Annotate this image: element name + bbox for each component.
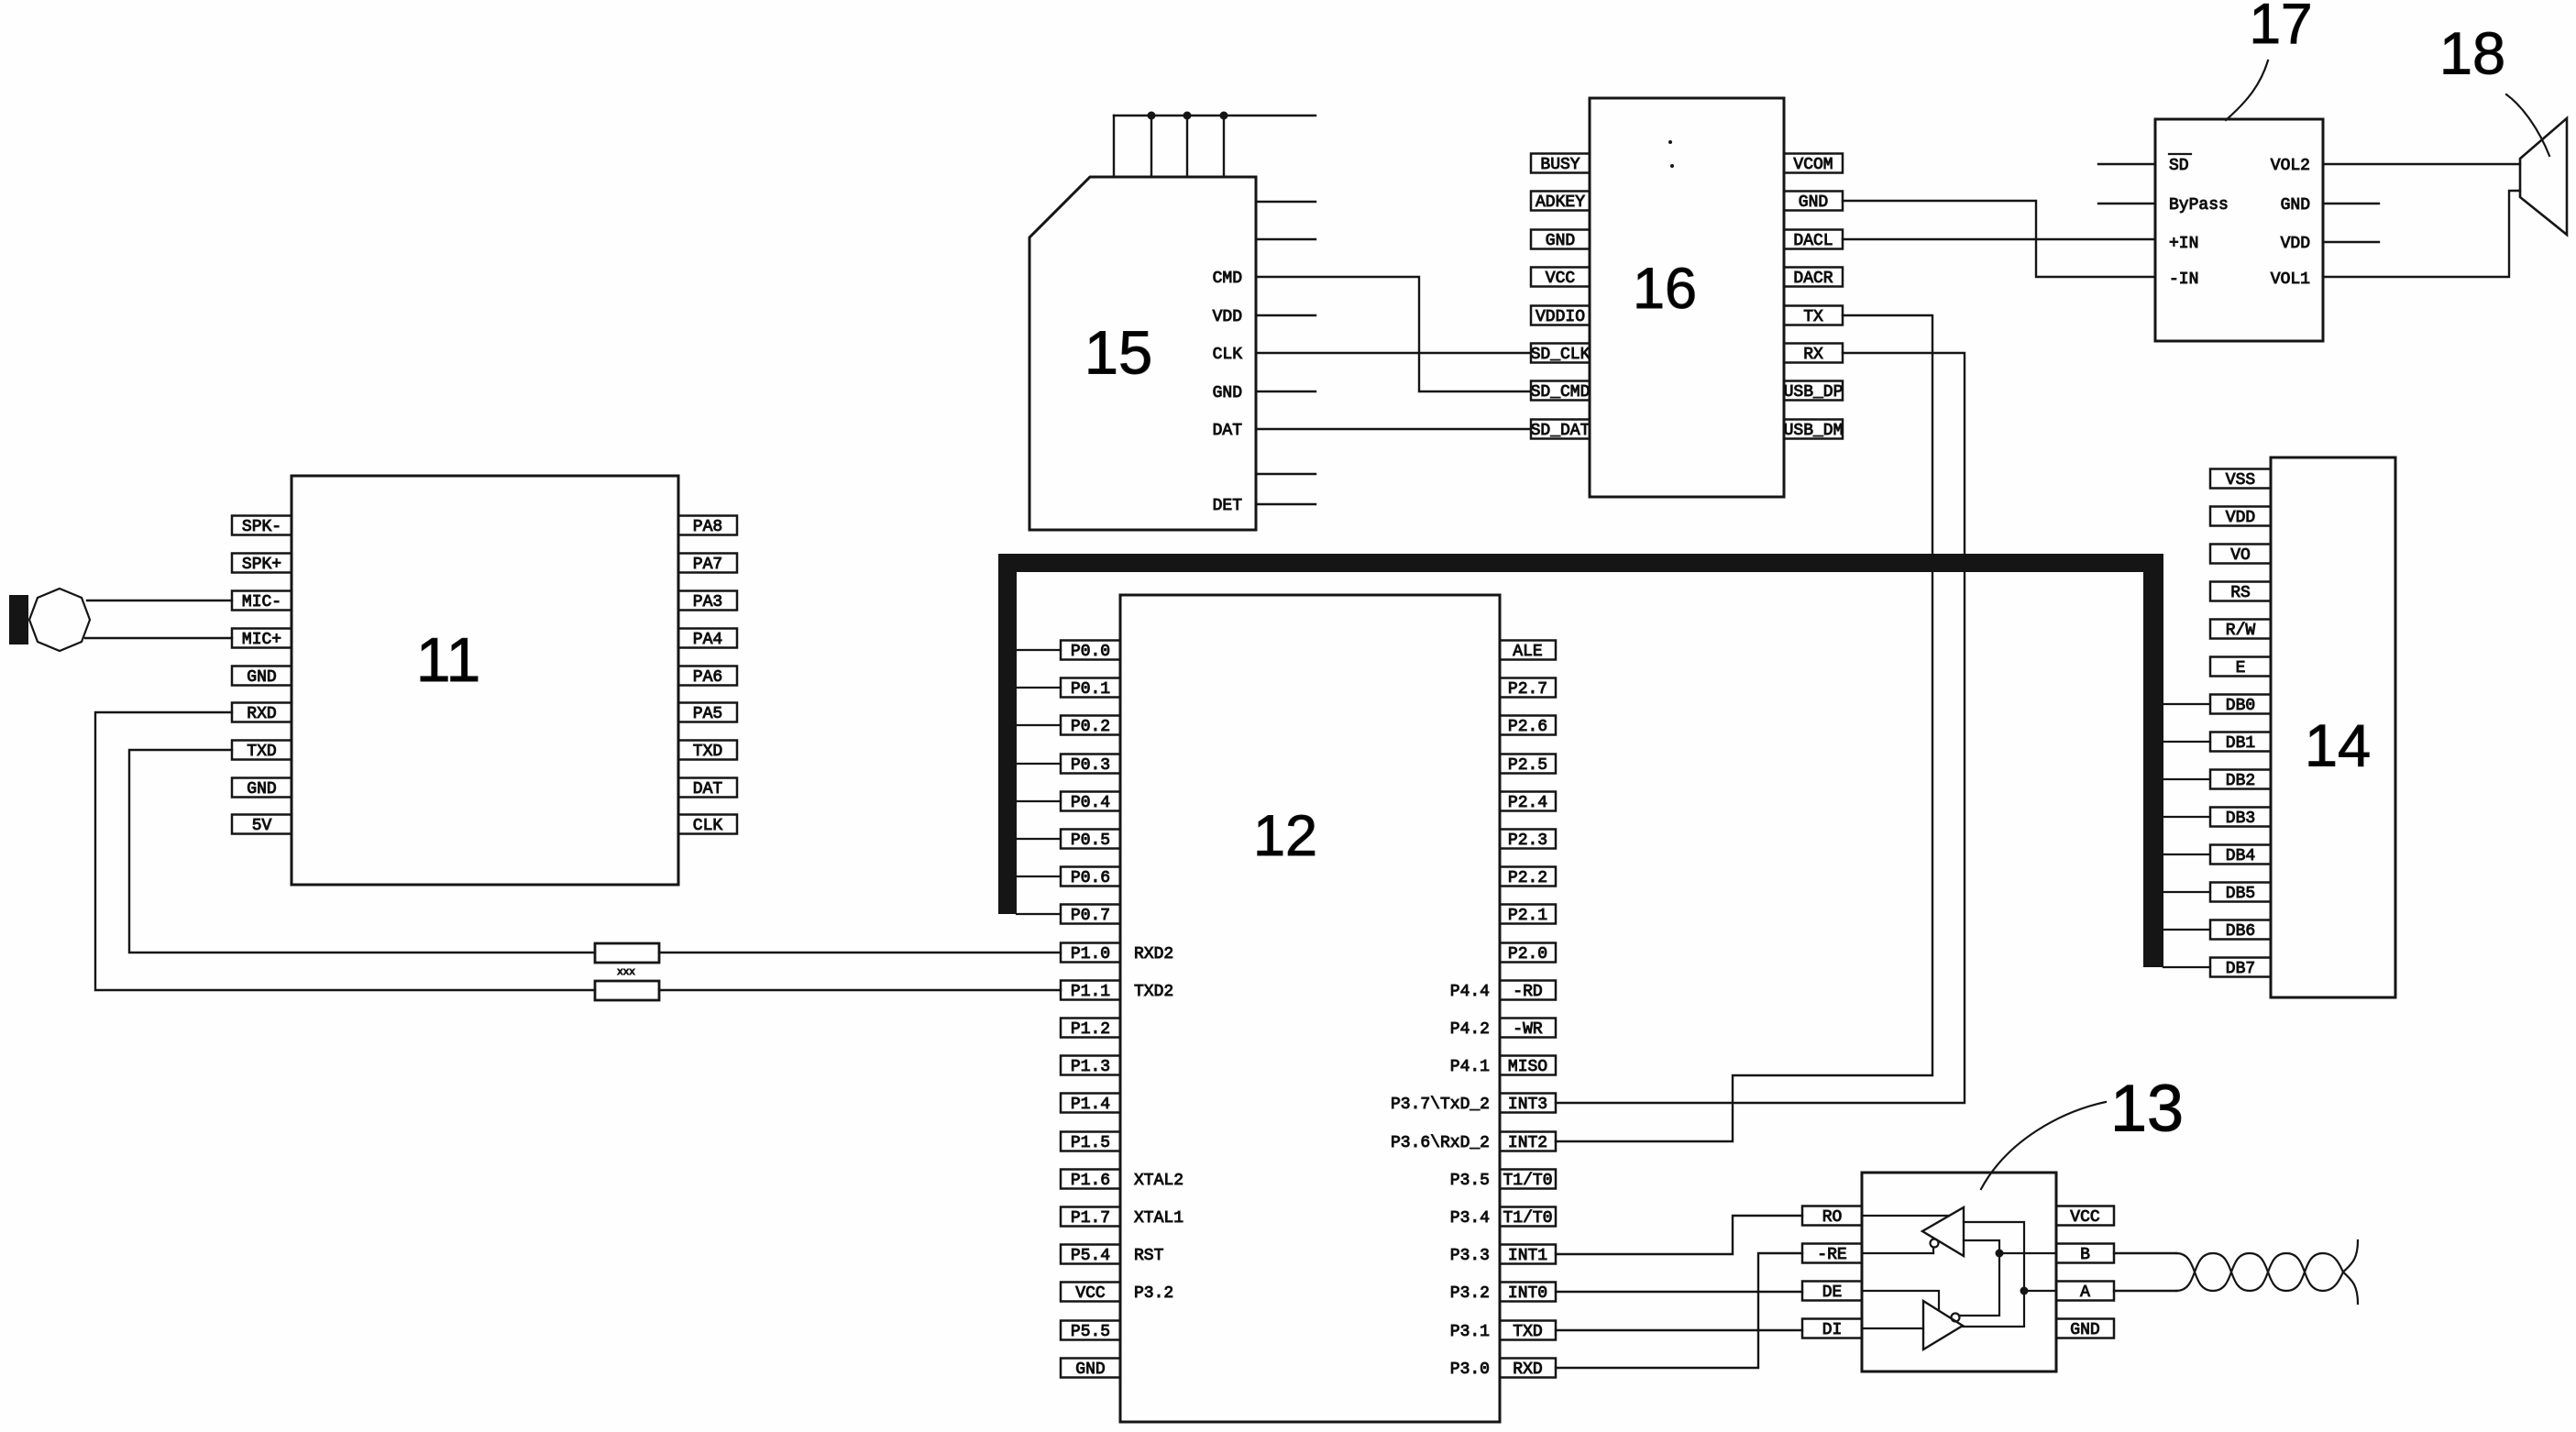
svg-text:VCOM: VCOM [1793,156,1833,174]
svg-text:DAT: DAT [1213,422,1243,440]
svg-text:DE: DE [1822,1283,1843,1302]
svg-text:P3.3: P3.3 [1450,1247,1490,1265]
svg-text:DB4: DB4 [2226,847,2255,865]
svg-text:16: 16 [1633,257,1697,321]
svg-text:P1.6: P1.6 [1071,1172,1110,1190]
svg-text:PA4: PA4 [693,631,722,649]
svg-text:-RE: -RE [1817,1246,1846,1264]
svg-text:P0.1: P0.1 [1071,680,1110,699]
svg-text:P0.0: P0.0 [1071,643,1110,661]
svg-text:SD_CMD: SD_CMD [1531,383,1591,402]
svg-text:GND: GND [247,780,276,799]
svg-text:P0.7: P0.7 [1071,907,1110,925]
svg-text:RXD2: RXD2 [1134,945,1173,964]
svg-text:DET: DET [1213,497,1243,515]
svg-text:P3.0: P3.0 [1450,1360,1490,1379]
svg-text:INT3: INT3 [1508,1096,1547,1114]
svg-text:DB0: DB0 [2226,697,2255,715]
svg-text:P0.4: P0.4 [1071,794,1110,812]
svg-text:P2.2: P2.2 [1508,869,1547,887]
svg-text:TX: TX [1803,308,1823,326]
svg-text:PA5: PA5 [693,705,722,723]
svg-text:TXD: TXD [247,743,276,761]
svg-text:TXD: TXD [1513,1323,1542,1341]
svg-text:17: 17 [2250,0,2313,56]
svg-text:PA6: PA6 [693,668,722,687]
svg-text:INT1: INT1 [1508,1247,1547,1265]
svg-text:P3.4: P3.4 [1450,1209,1490,1228]
svg-text:VO: VO [2230,546,2251,565]
svg-text:P3.2: P3.2 [1134,1284,1173,1303]
svg-text:A: A [2080,1283,2090,1302]
svg-text:P4.4: P4.4 [1450,983,1490,1001]
svg-text:DB1: DB1 [2226,734,2255,753]
svg-text:P1.4: P1.4 [1071,1096,1110,1114]
svg-text:PA3: PA3 [693,593,722,611]
svg-text:GND: GND [1799,193,1828,212]
svg-text:DI: DI [1822,1321,1843,1339]
svg-text:CLK: CLK [693,817,723,835]
svg-text:VDD: VDD [1213,308,1242,326]
svg-text:P1.2: P1.2 [1071,1020,1110,1039]
svg-text:DB6: DB6 [2226,922,2255,941]
svg-text:VCC: VCC [1546,270,1576,288]
svg-text:DACL: DACL [1793,232,1833,250]
svg-text:P1.5: P1.5 [1071,1134,1110,1152]
svg-text:5V: 5V [252,817,272,835]
svg-text:P2.4: P2.4 [1508,794,1547,812]
svg-text:VSS: VSS [2226,471,2255,490]
svg-text:GND: GND [2070,1321,2099,1339]
svg-text:P3.5: P3.5 [1450,1172,1490,1190]
svg-text:18: 18 [2439,19,2505,86]
svg-text:ALE: ALE [1513,643,1542,661]
svg-text:T1/T0: T1/T0 [1503,1209,1552,1228]
svg-text:P1.3: P1.3 [1071,1058,1110,1076]
svg-text:P2.0: P2.0 [1508,945,1547,964]
svg-text:P2.3: P2.3 [1508,832,1547,850]
svg-text:11: 11 [416,625,481,695]
svg-text:DB3: DB3 [2226,810,2255,828]
svg-text:XTAL2: XTAL2 [1134,1172,1183,1190]
svg-text:P3.7\TxD_2: P3.7\TxD_2 [1391,1096,1490,1114]
svg-text:SD_CLK: SD_CLK [1531,346,1591,364]
svg-text:-RD: -RD [1513,983,1542,1001]
svg-text:TXD: TXD [693,743,722,761]
svg-text:P5.5: P5.5 [1071,1323,1110,1341]
svg-text:RO: RO [1822,1208,1843,1227]
svg-text:RX: RX [1803,346,1823,364]
svg-text:ADKEY: ADKEY [1536,193,1585,212]
svg-text:INT2: INT2 [1508,1134,1547,1152]
svg-text:TXD2: TXD2 [1134,983,1173,1001]
svg-text:CLK: CLK [1213,346,1243,364]
svg-text:B: B [2080,1246,2090,1264]
svg-text:P0.5: P0.5 [1071,832,1110,850]
svg-text:R/W: R/W [2226,622,2256,640]
svg-text:E: E [2236,659,2246,677]
svg-text:SPK-: SPK- [242,518,281,536]
svg-text:P1.0: P1.0 [1071,945,1110,964]
svg-text:P1.1: P1.1 [1071,983,1110,1001]
svg-text:GND: GND [1546,232,1575,250]
svg-text:xxx: xxx [617,967,635,978]
svg-text:DAT: DAT [693,780,723,799]
svg-text:P2.1: P2.1 [1508,907,1547,925]
svg-text:GND: GND [2281,196,2310,215]
svg-text:P3.6\RxD_2: P3.6\RxD_2 [1391,1134,1490,1152]
svg-text:VOL1: VOL1 [2271,270,2310,289]
svg-text:13: 13 [2110,1072,2184,1145]
svg-text:P3.1: P3.1 [1450,1323,1490,1341]
svg-text:MIC+: MIC+ [242,631,281,649]
svg-text:SD: SD [2169,157,2189,175]
svg-text:CMD: CMD [1213,270,1242,288]
svg-text:-IN: -IN [2169,270,2198,289]
svg-text:MISO: MISO [1508,1058,1547,1076]
svg-text:XTAL1: XTAL1 [1134,1209,1183,1228]
svg-text:VDD: VDD [2226,509,2255,527]
svg-text:VCC: VCC [2070,1208,2100,1227]
svg-text:ByPass: ByPass [2169,196,2229,215]
svg-text:DACR: DACR [1793,270,1833,288]
svg-text:P1.7: P1.7 [1071,1209,1110,1228]
svg-text:P4.1: P4.1 [1450,1058,1490,1076]
svg-text:VCC: VCC [1075,1284,1106,1303]
svg-text:DB5: DB5 [2226,885,2255,903]
svg-text:PA8: PA8 [693,518,722,536]
svg-text:P2.7: P2.7 [1508,680,1547,699]
svg-text:P3.2: P3.2 [1450,1284,1490,1303]
svg-text:VOL2: VOL2 [2271,157,2310,175]
svg-text:USB_DM: USB_DM [1784,422,1844,440]
svg-text:GND: GND [247,668,276,687]
svg-text:GND: GND [1075,1360,1105,1379]
svg-text:P0.6: P0.6 [1071,869,1110,887]
svg-text:DB2: DB2 [2226,772,2255,790]
svg-text:GND: GND [1213,384,1242,402]
svg-text:VDDIO: VDDIO [1536,308,1585,326]
svg-text:P0.3: P0.3 [1071,756,1110,775]
svg-text:P4.2: P4.2 [1450,1020,1490,1039]
svg-text:P5.4: P5.4 [1071,1247,1110,1265]
svg-text:P0.2: P0.2 [1071,718,1110,736]
svg-text:T1/T0: T1/T0 [1503,1172,1552,1190]
svg-text:USB_DP: USB_DP [1784,383,1844,402]
svg-text:RST: RST [1134,1247,1164,1265]
svg-text:+IN: +IN [2169,235,2198,253]
svg-text:VDD: VDD [2281,235,2310,253]
svg-text:PA7: PA7 [693,556,722,574]
svg-text:BUSY: BUSY [1540,156,1580,174]
svg-text:RS: RS [2230,584,2251,602]
svg-text:12: 12 [1253,804,1317,868]
svg-text:-WR: -WR [1513,1020,1543,1039]
svg-text:INT0: INT0 [1508,1284,1547,1303]
svg-text:P2.5: P2.5 [1508,756,1547,775]
svg-text:SD_DAT: SD_DAT [1531,422,1591,440]
svg-text:RXD: RXD [247,705,276,723]
svg-text:SPK+: SPK+ [242,556,281,574]
svg-text:RXD: RXD [1513,1360,1542,1379]
svg-text:P2.6: P2.6 [1508,718,1547,736]
svg-text:15: 15 [1084,319,1153,388]
svg-text:DB7: DB7 [2226,960,2255,978]
svg-text:MIC-: MIC- [242,593,281,611]
svg-text:14: 14 [2305,711,2371,778]
